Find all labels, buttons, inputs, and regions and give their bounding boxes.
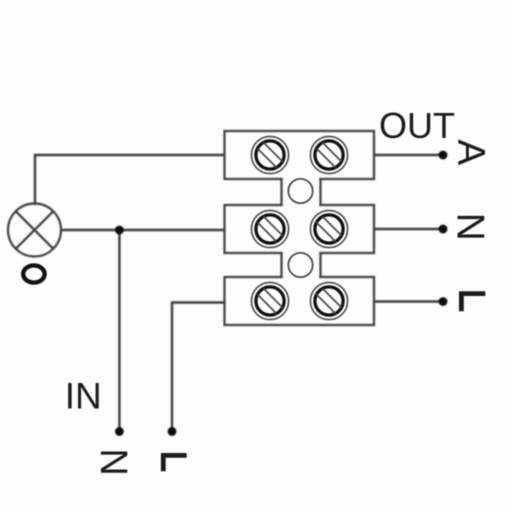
svg-text:N: N — [92, 448, 134, 475]
svg-text:OUT: OUT — [379, 105, 455, 146]
svg-text:N: N — [449, 213, 492, 241]
svg-text:IN: IN — [65, 375, 102, 416]
svg-text:A: A — [449, 139, 492, 165]
